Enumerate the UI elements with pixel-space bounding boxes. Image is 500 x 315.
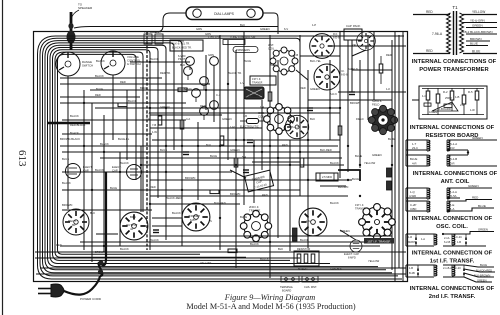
wire vertical extra ve3 [91,103,93,262]
resistor board diagonal link [432,102,458,111]
wire horizontal h15 [150,179,352,181]
wire bundle run 8 [55,52,246,257]
elect cap 8mfd [350,240,362,252]
svg-text:RED: RED [262,193,268,197]
svg-text:GREEN: GREEN [160,105,170,109]
svg-text:BLACK: BLACK [300,238,309,242]
svg-text:TONE CONTROL SW.: TONE CONTROL SW. [230,35,256,39]
wire horizontal extra he12 [308,99,392,101]
svg-text:DIAL LAMPS: DIAL LAMPS [214,12,235,16]
capacitor c1 [247,140,253,143]
svg-text:FIELD: FIELD [356,117,364,121]
2nd IF transf scallop [240,210,271,241]
wire vertical v18 [347,40,349,172]
svg-text:GRN: GRN [196,27,202,31]
resistor rh4 [210,190,219,194]
svg-text:1ST I.F.: 1ST I.F. [252,77,261,81]
wire vertical extra ve7 [126,90,128,160]
svg-text:GREEN: GREEN [260,27,270,31]
wire vertical extra ve4 [103,115,105,252]
transformer lead BROWN [466,37,490,41]
wire horizontal h18 [80,241,390,243]
svg-text:1-A: 1-A [450,207,454,211]
svg-text:BROWN-BLACK: BROWN-BLACK [60,137,80,141]
junction dots extra [83,102,393,247]
svg-text:YELLOW: YELLOW [364,161,376,165]
svg-text:BLK: BLK [206,143,211,147]
ant coil winding S1 [447,140,468,151]
wire vertical v20 [367,35,369,120]
svg-text:613: 613 [16,150,28,167]
pilot lamp p2 [210,57,219,66]
svg-text:I.F.: I.F. [341,69,345,73]
cap 2.5 mfd [316,173,338,181]
1st IF secondary winding [443,234,455,246]
tube V8 IF 6D6 [314,64,340,90]
wire bundle run 5 [48,45,379,266]
svg-text:B-2B: B-2B [409,271,415,275]
wire vertical v15 [307,70,309,248]
svg-text:BLACK: BLACK [62,181,71,185]
terminal board [280,276,318,292]
svg-text:TRANSF.: TRANSF. [252,81,263,85]
transformer lead RED top-left [413,10,450,15]
svg-text:BLUE: BLUE [96,87,103,91]
svg-text:2-F: 2-F [146,117,150,121]
svg-text:2.5 MFD: 2.5 MFD [322,175,332,179]
osc coil winding D [447,201,460,212]
svg-text:250M: 250M [445,96,452,100]
svg-text:1-B: 1-B [457,240,461,244]
svg-text:4-R: 4-R [412,162,417,166]
svg-text:INTERNAL CONNECTION OF: INTERNAL CONNECTION OF [412,216,493,222]
wire vertical v13 [277,60,279,238]
tube V10 osc 6A7 [285,115,308,138]
svg-text:CHS. MNT.: CHS. MNT. [304,285,317,289]
svg-text:1-V: 1-V [240,81,244,85]
power transformer core [454,11,457,55]
2nd IF secondary trimmer [452,265,464,277]
wire vertical extra ve9 [351,40,353,92]
svg-text:R-2: R-2 [443,90,448,94]
svg-text:RED: RED [386,53,392,57]
main schematic outer border [34,32,408,282]
svg-text:BROWN: BROWN [470,37,482,41]
wire horizontal extra he1 [150,112,340,114]
svg-text:RED: RED [426,49,433,53]
svg-text:BLACK: BLACK [95,74,104,78]
resistor r3 [158,116,162,125]
svg-text:BLK: BLK [310,117,315,121]
wire horizontal extra he20 [252,161,300,163]
wire horizontal h19 [60,245,380,247]
svg-text:BLUE: BLUE [210,154,217,158]
svg-text:INTERNAL CONNECTIONS OF: INTERNAL CONNECTIONS OF [413,171,498,177]
resistor r4 [234,158,238,167]
wire horizontal extra he17 [35,257,300,259]
svg-text:1-R: 1-R [408,235,412,239]
transformer lead BLUE mid [466,42,488,46]
svg-text:6-V: 6-V [284,27,288,31]
svg-text:BLACK: BLACK [96,59,105,63]
resistor R board 3 [450,88,454,111]
wire vertical extra ve16 [197,122,199,200]
svg-text:7-96-A: 7-96-A [432,32,443,36]
svg-text:ELECT. CAP.: ELECT. CAP. [344,252,360,256]
osc coil left bracket [405,188,407,211]
wire horizontal h11 [62,151,340,153]
wire horizontal h7 [95,107,340,109]
svg-text:2-1A: 2-1A [444,236,450,240]
svg-text:6-B-7: 6-B-7 [190,218,197,222]
svg-text:INTERNAL CONNECTION OF: INTERNAL CONNECTION OF [412,251,493,257]
svg-text:TERMINAL: TERMINAL [280,285,294,289]
osc coil lead RED [460,196,492,201]
svg-text:6-A-7: 6-A-7 [292,125,299,129]
svg-text:S: S [210,219,212,223]
capacitor c4 [349,92,355,95]
svg-text:BLACK: BLACK [330,201,339,205]
wire horizontal extra he5 [150,203,240,205]
dial lamps feed wire left [150,13,186,32]
wire horizontal extra he7 [152,217,182,219]
wire vertical v19 [359,60,361,168]
pilot lamp p6 [200,107,209,116]
wire vertical v16 [329,60,331,140]
svg-text:1ST I.F.: 1ST I.F. [355,203,364,207]
svg-text:BLACK: BLACK [330,161,339,165]
svg-text:YELLOW: YELLOW [472,10,485,14]
svg-text:GRN-BLK: GRN-BLK [330,267,342,271]
svg-text:BLUE: BLUE [240,215,247,219]
svg-text:GREEN: GREEN [310,87,320,91]
resistor R board 5 [475,88,479,115]
wire horizontal extra he21 [320,185,346,187]
svg-text:BLUE: BLUE [62,157,69,161]
pilot lamp p5 [192,89,201,98]
svg-text:4-WD: 4-WD [409,194,416,198]
wire horizontal extra he15 [150,235,392,237]
svg-text:1756: 1756 [155,31,161,34]
dial lamp top feed wire [74,27,278,29]
svg-text:GREEN: GREEN [472,136,483,140]
ant coil winding S2 [447,155,468,166]
wire horizontal h10 [60,145,338,147]
svg-text:C-2C: C-2C [455,266,461,270]
osc coil lead GREEN [464,184,492,188]
wire bundle run 1 [38,36,405,279]
ant coil right junction wire [462,150,497,166]
resistor board internal bus bottom [422,114,484,116]
svg-text:BLACK: BLACK [120,247,129,251]
wire bundle run 7 [53,50,291,261]
ant coil winding P2 [406,155,430,166]
svg-text:GREEN: GREEN [472,23,483,27]
dial lamps feed wire right [263,13,278,34]
2nd IF lead fan GREEN [464,277,492,282]
osc coil lead BLUE [460,204,494,211]
svg-text:RED-BLACK: RED-BLACK [70,123,86,127]
volume control left [56,52,93,76]
1st IF left vertical link [405,234,407,246]
tube V9 top right [357,32,376,51]
svg-text:PILOT: PILOT [178,57,186,61]
svg-text:RED: RED [56,243,62,247]
svg-text:BLK: BLK [90,211,95,215]
svg-text:RED: RED [120,80,126,84]
wire horizontal extra he9 [96,233,118,235]
wire bundle run 9 [58,54,201,254]
wire horizontal h1 [130,61,190,63]
svg-text:BLACK: BLACK [70,131,79,135]
svg-text:C-2C: C-2C [456,235,462,239]
wire bundle run 3 [43,41,393,273]
2nd IF primary trimmer cap [417,265,419,277]
svg-text:Model M-51-A and Model M-56 (1: Model M-51-A and Model M-56 (1935 Produc… [186,302,355,311]
ant coil left bracket wire [405,140,407,166]
resistor board box [419,86,487,119]
svg-text:BLACK: BLACK [70,114,79,118]
wire horizontal extra he18 [40,267,406,269]
svg-text:BROWN: BROWN [62,203,72,207]
svg-text:COIL: COIL [268,47,275,51]
resistor board extra element 2 [424,103,431,106]
svg-text:GREEN: GREEN [468,184,479,188]
page edge line [2,0,4,315]
svg-text:INTERNAL CONNECTIONS OF: INTERNAL CONNECTIONS OF [412,59,497,65]
svg-text:1-K: 1-K [386,87,390,91]
svg-text:BLACK: BLACK [150,238,159,242]
osc coil winding B [447,188,464,199]
svg-text:GREEN: GREEN [477,278,487,282]
2nd IF primary winding [406,265,437,277]
1st IF transf label box [250,76,276,85]
svg-text:O-5A: O-5A [450,194,457,198]
svg-text:CAP.: CAP. [112,169,118,173]
resistor board main [294,247,319,271]
svg-text:6-D-6: 6-D-6 [341,72,348,76]
wire vertical v9 [235,50,237,268]
svg-text:GREEN: GREEN [230,148,240,152]
wire horizontal h13 [140,164,344,166]
resistor R board 2 [436,88,440,115]
svg-text:TRANSF.: TRANSF. [249,209,261,213]
capacitor c5 [153,230,159,233]
electrolytic cap mid [127,165,142,180]
svg-text:1-B: 1-B [455,95,459,99]
wire horizontal h12 [100,157,342,159]
power cord cable [64,276,100,295]
2nd IF secondary winding [443,265,455,277]
resistor rh1 [228,249,237,253]
svg-text:4-MEG: 4-MEG [429,110,437,114]
svg-text:6-D-6: 6-D-6 [333,35,340,39]
wire vertical extra ve13 [253,140,255,203]
1st IF transf dark label [364,238,394,244]
svg-text:BLK-BROWN: BLK-BROWN [474,273,490,277]
svg-text:BLUE: BLUE [110,186,117,190]
resistor board lead left [412,99,419,101]
wire vertical v7 [219,35,221,250]
2nd IF lead fan BLUE [464,263,494,267]
resistor R top right [379,56,383,84]
svg-text:1-W: 1-W [152,130,157,134]
svg-text:1ST I.F. TRANSF.: 1ST I.F. TRANSF. [367,239,391,243]
svg-text:RED: RED [282,143,288,147]
svg-text:GREEN: GREEN [222,117,232,121]
svg-text:2-R: 2-R [450,146,455,150]
wire vertical extra ve11 [394,31,396,281]
svg-text:1755: 1755 [178,39,184,43]
svg-text:BLACK-RED: BLACK-RED [166,196,181,200]
capacitor c3 [307,108,313,111]
svg-text:5-A: 5-A [242,155,246,159]
svg-text:R-5: R-5 [468,90,473,94]
resistor dark vertical near V5 [293,228,298,241]
speaker field can [368,105,397,134]
terminal strip box 1755 [144,31,163,44]
transformer lead RED bottom-left [413,49,450,54]
svg-text:BLACK: BLACK [250,242,259,246]
1st IF lead GREEN [466,228,494,234]
svg-text:BLACK: BLACK [100,142,109,146]
svg-text:BROWN: BROWN [185,176,195,180]
wire vertical v10 [243,31,245,205]
wire vertical v22 [398,35,400,268]
wire horizontal extra he19 [36,273,406,275]
svg-text:RED: RED [472,196,479,200]
wire horizontal h4 [90,89,246,91]
2nd IF lead fan BLK-BROWN [464,273,494,277]
pilot lamp p1 [186,57,195,66]
wire horizontal h6 [60,102,186,104]
svg-text:RESISTOR: RESISTOR [297,247,310,251]
wire horizontal h9 [152,139,340,141]
wire horizontal extra he14 [352,69,392,71]
cap pack box [344,29,362,40]
dial lamp housing [186,7,263,20]
svg-text:RESISTOR BOARD: RESISTOR BOARD [425,133,478,139]
wire vertical v11 [261,100,263,170]
wire horizontal h3 [60,83,210,85]
tone control switch contacts [223,40,245,45]
svg-text:3-BD: 3-BD [410,207,416,211]
wire bundle run 2 [40,38,398,276]
tone control right [101,51,141,75]
svg-text:& SWITCH: & SWITCH [127,62,141,66]
dial lamp left bulb [193,9,201,17]
wire vertical extra ve1 [67,76,69,209]
pilot lamp p4 [200,77,209,86]
svg-text:GRN: GRN [208,53,214,57]
pilot lamp p7 [210,101,219,110]
wire vertical extra ve14 [289,140,291,251]
svg-text:RED: RED [300,86,306,90]
svg-text:R.F.: R.F. [333,32,338,36]
svg-text:CAP: CAP [346,24,352,28]
svg-text:RED: RED [426,10,433,14]
svg-text:BRN: BRN [130,215,136,219]
svg-text:BLACK: BLACK [95,168,104,172]
svg-text:BLUE: BLUE [244,59,251,63]
svg-text:4-B-2 BLACK-BROWN: 4-B-2 BLACK-BROWN [462,30,493,34]
svg-text:2-1-B-A: 2-1-B-A [443,266,452,270]
svg-text:1-P: 1-P [312,23,316,27]
svg-text:3-R: 3-R [450,162,455,166]
svg-text:SWITCH: SWITCH [82,64,93,68]
svg-text:COIL: COIL [258,115,265,119]
svg-text:POWER CORD: POWER CORD [80,297,102,301]
svg-text:GRN: GRN [205,32,211,36]
output tube V2 [120,212,148,240]
svg-text:BLK-YEL: BLK-YEL [310,59,322,63]
wire horizontal h14 [62,171,232,173]
osc coil winding A [406,188,430,199]
svg-text:MWF5: MWF5 [408,240,416,244]
wire vertical v12 [269,35,271,278]
svg-text:BLACK: BLACK [120,161,129,165]
svg-text:BLUE: BLUE [270,63,277,67]
svg-text:1-W: 1-W [470,108,475,112]
svg-text:BLACK-RED TR.: BLACK-RED TR. [172,46,192,50]
svg-text:T1: T1 [452,5,458,10]
wire vertical v8 [227,40,229,160]
capacitor c6 [243,170,249,173]
svg-text:2-M: 2-M [460,103,464,107]
resistor rh2 [178,88,187,92]
wire horizontal extra he6 [62,209,152,211]
svg-text:6-D-6: 6-D-6 [330,92,337,96]
ant coil junction dot [467,151,469,153]
svg-text:BLUE-PL: BLUE-PL [118,137,130,141]
wire horizontal h2 [60,77,162,79]
svg-text:BLUE: BLUE [140,86,147,90]
resistor board internal bus top [422,88,484,90]
svg-text:BLUE: BLUE [355,154,362,158]
svg-text:1-C: 1-C [422,94,427,98]
wire horizontal extra he4 [62,133,152,135]
svg-text:BLK: BLK [180,63,185,67]
resistor R board 4 [462,88,466,115]
svg-text:BLACK: BLACK [260,257,269,261]
ant coil lead GREEN [462,136,497,140]
svg-text:BLUE: BLUE [160,148,167,152]
wire horizontal extra he13 [300,55,340,57]
wire horizontal h5 [60,96,140,98]
svg-text:ANT. COIL: ANT. COIL [441,179,470,185]
thick black wire near 2.5mfd [338,170,360,181]
svg-text:BLUE: BLUE [388,137,395,141]
svg-text:L.A.: L.A. [306,219,311,223]
svg-text:BLACK TR.: BLACK TR. [228,71,242,75]
svg-text:1-A: 1-A [421,237,425,241]
svg-text:INTERNAL CONNECTIONS OF: INTERNAL CONNECTIONS OF [410,125,495,131]
wire vertical extra ve15 [213,66,215,122]
svg-text:RED: RED [150,185,156,189]
1st IF primary trimmer cap [408,234,425,246]
svg-text:1755: 1755 [144,31,150,34]
svg-text:TRANSF.: TRANSF. [355,206,366,210]
svg-text:23-C: 23-C [412,146,418,150]
wire horizontal h17 [150,195,348,197]
svg-text:YE-&-GRN: YE-&-GRN [470,18,485,22]
resistor stack right R-b [387,181,392,190]
capacitor c2 [183,152,189,155]
pilot lamp p3 [184,67,193,76]
svg-text:Figure 9—Wiring Diagram: Figure 9—Wiring Diagram [224,293,316,302]
svg-text:1-J: 1-J [146,111,150,115]
svg-text:4-A: 4-A [186,117,190,121]
